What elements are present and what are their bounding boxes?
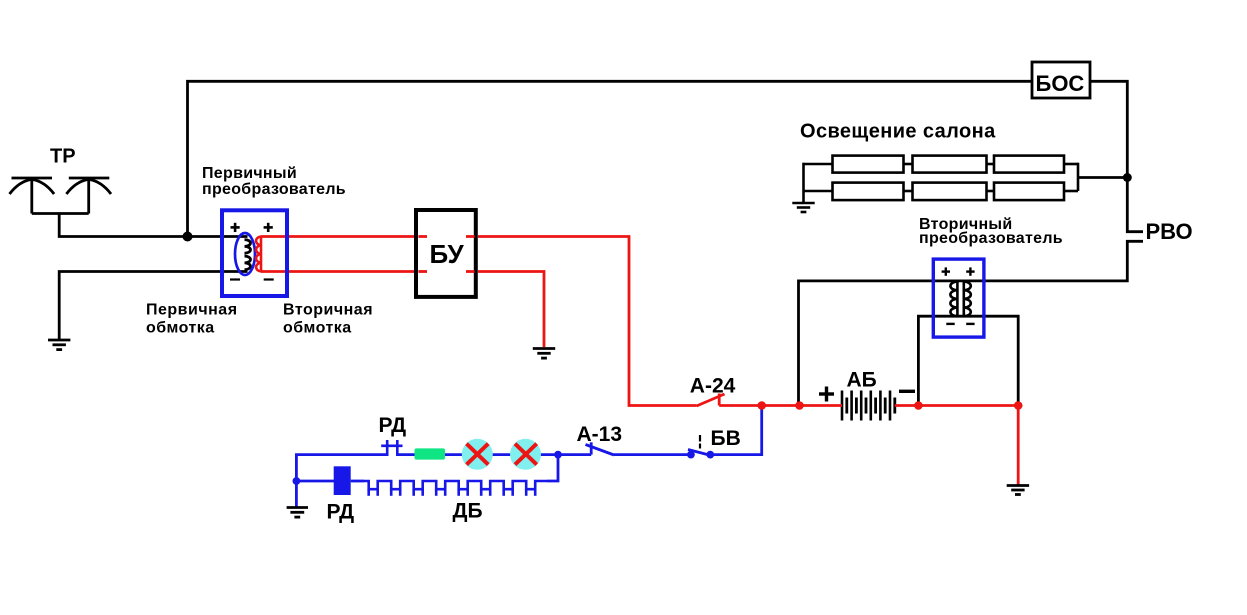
svg-text:АБ: АБ [847, 369, 877, 392]
БВ contact dot right [706, 451, 714, 459]
lamp tube 1 (row1) [833, 156, 904, 173]
current collector TP left pole [10, 178, 55, 214]
red stub inside БУ top-left [418, 235, 427, 238]
current collector TP right pole [66, 178, 111, 214]
svg-text:БОС: БОС [1036, 71, 1085, 96]
junction dot red at А-24/БВ [757, 401, 766, 410]
wire: red down to ground right [1017, 406, 1020, 487]
svg-text:БВ: БВ [711, 427, 741, 450]
primary converter box U1 [222, 210, 287, 296]
А-24 switch blade [697, 394, 725, 406]
plus mark primary right [264, 223, 273, 232]
red stub inside БУ bottom-right [466, 270, 475, 273]
wire: red from БУ bottom to ground [478, 272, 544, 348]
wire: primary winding bottom to ground [59, 272, 247, 340]
А-24 switch post [718, 394, 721, 406]
plus mark secondary right [966, 267, 974, 275]
БОС box [1032, 62, 1090, 98]
БВ linkage dashes [699, 435, 701, 442]
battery minus mark [899, 390, 915, 393]
wire: А-13 to lamps junction [558, 453, 591, 456]
wire: TP to primary winding top [59, 214, 247, 237]
junction dot blue left [293, 477, 301, 485]
control unit БУ box [416, 210, 476, 297]
plus mark secondary left [942, 267, 950, 275]
wire: left blue riser to РД contact [296, 455, 387, 481]
junction dot at РВО bus [1123, 173, 1132, 182]
svg-text:БУ: БУ [430, 239, 465, 269]
wire: secondary converter bottom bar [918, 316, 1018, 405]
wire: blue stem to ground [295, 481, 298, 507]
lamp tube 2 (row1) [913, 156, 987, 173]
minus mark primary left [230, 278, 240, 280]
lamp tube 4 (row2) [833, 183, 904, 201]
minus mark secondary right [966, 323, 974, 325]
wire: lamp bank to РВО bus [1078, 176, 1127, 179]
red stub inside БУ top-right [466, 235, 475, 238]
svg-text:РВО: РВО [1146, 219, 1193, 244]
РД relay coil (solid blue box) [334, 466, 351, 495]
wire: БВ to А-13 [614, 453, 691, 456]
wire: blue from БВ up to red bus [711, 406, 762, 455]
junction dot blue at lamps [554, 451, 562, 459]
А-13 switch blade [586, 445, 615, 456]
minus mark secondary left [946, 323, 954, 325]
junction dot red at battery minus [914, 401, 923, 410]
РД contact (two bars and bridge) [381, 440, 402, 456]
svg-text:Освещение салона: Освещение салона [800, 121, 996, 143]
svg-text:А-24: А-24 [690, 374, 736, 397]
lamp row1 connectors [804, 163, 833, 166]
ground (БУ output) [533, 349, 555, 359]
РВО contact lower part [799, 241, 1144, 405]
svg-text:ТР: ТР [50, 146, 76, 168]
wire: green resistor to РД contact [398, 453, 447, 456]
ДБ element tap ticks [369, 489, 536, 496]
signal lamp 1 (cyan bulb with red cross) [462, 439, 493, 470]
ДБ heater element (square wave with ticks) [364, 481, 547, 489]
battery АБ plates [842, 391, 895, 421]
transformer core (blue ellipse) [235, 233, 255, 275]
ground (lamp bank) [792, 203, 814, 212]
minus mark primary right [264, 278, 274, 280]
wire: РД coil to ДБ [351, 480, 364, 483]
ground (battery right) [1007, 486, 1029, 495]
svg-text:А-13: А-13 [577, 423, 623, 446]
secondary converter left winding [950, 282, 957, 317]
secondary converter box [933, 259, 984, 337]
battery plus mark [819, 387, 834, 402]
wire: secondary red bottom to БУ [261, 270, 415, 273]
wire: lamp bank right bracket [1077, 163, 1080, 191]
node A junction dot [183, 232, 193, 242]
wire: lamp bank left vertical [802, 163, 805, 202]
fuse (green rectangle) [415, 448, 446, 459]
lamp tube 6 (row2) [994, 183, 1064, 201]
wire: ДБ to lamps junction riser [547, 455, 558, 481]
primary winding (black coil) [245, 240, 251, 254]
wire: red bus А-24 to battery and ground [719, 404, 842, 407]
svg-text:РД: РД [379, 414, 407, 437]
secondary winding (red coil) [256, 237, 261, 272]
wire: top bus from node A to БОС and РВО corner [188, 81, 1144, 236]
wire: blue lamp chain [446, 453, 558, 456]
lamp tube 5 (row2) [913, 183, 987, 201]
signal lamp 2 (cyan bulb with red cross) [510, 439, 541, 470]
junction dot red at battery plus [795, 401, 804, 410]
red stub inside БУ bottom-left [418, 270, 427, 273]
svg-text:РД: РД [327, 501, 355, 524]
secondary converter right winding [964, 282, 971, 317]
lamp tube 3 (row1) [994, 156, 1064, 173]
lamp row2 connectors [804, 190, 833, 193]
ground (blue circuit) [287, 508, 308, 518]
svg-text:ДБ: ДБ [453, 500, 483, 523]
plus mark primary left [231, 223, 240, 232]
wire: red from БУ top right to А-24 [478, 237, 697, 406]
wire: TP poles join bar [32, 212, 89, 215]
wire: junction to РД coil [296, 480, 334, 483]
junction dot red at ground branch [1014, 401, 1023, 410]
БВ blade [688, 450, 713, 457]
БВ contact dot left [687, 451, 695, 459]
wire: secondary red top to БУ [261, 235, 415, 238]
А-13 switch post [590, 442, 593, 454]
ground (TP side) [48, 340, 70, 350]
